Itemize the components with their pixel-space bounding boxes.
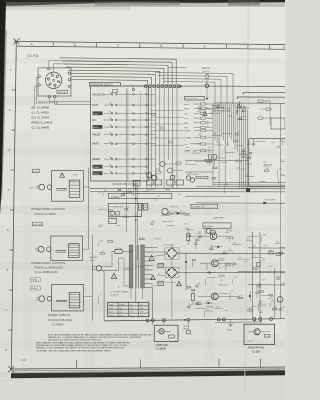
stage3 wires — [198, 295, 211, 297]
svg-text:(B): CL-54085: (B): CL-54085 — [32, 106, 50, 110]
wire cross links bus-syscon — [151, 110, 184, 112]
operation switch label box — [89, 82, 120, 86]
fuse F1 — [115, 250, 122, 254]
svg-text:SYSCON PCB CL-5448: SYSCON PCB CL-5448 — [112, 184, 137, 186]
svg-text:POWER SUPPLY & SYSCON: POWER SUPPLY & SYSCON — [32, 262, 66, 265]
bridge rectifier D2 — [166, 267, 177, 278]
AC plug symbol — [96, 266, 101, 271]
svg-text:220: 220 — [211, 112, 214, 114]
fold crease horizontal — [0, 229, 285, 232]
svg-text:C24: C24 — [268, 266, 271, 268]
svg-text:TIMER: TIMER — [93, 167, 100, 169]
cluster transistors — [186, 176, 190, 180]
svg-text:1k: 1k — [173, 176, 175, 178]
svg-text:33k: 33k — [262, 280, 265, 282]
svg-text:AC317: AC317 — [227, 329, 233, 332]
resistor R20 — [187, 233, 190, 240]
transformer T1 primary — [129, 245, 133, 288]
svg-text:47: 47 — [162, 214, 164, 216]
svg-text:R24: R24 — [248, 143, 251, 145]
svg-text:AC120V: AC120V — [90, 256, 98, 259]
svg-text:MAIN REG: MAIN REG — [214, 216, 225, 219]
wire D1 outputs — [177, 254, 286, 256]
svg-text:0.01: 0.01 — [266, 168, 270, 170]
mute block box — [108, 193, 172, 198]
wire taps to D1 — [153, 251, 167, 253]
svg-text:POWER SW: POWER SW — [111, 207, 124, 209]
svg-text:10k: 10k — [271, 301, 274, 303]
wire vertical right edge — [280, 104, 282, 319]
svg-text:D12: D12 — [235, 140, 238, 142]
svg-text:LAMP: LAMP — [184, 150, 190, 153]
svg-text:MUTE: MUTE — [93, 144, 100, 146]
svg-text:220: 220 — [226, 144, 229, 146]
wire left pins down — [37, 78, 40, 104]
svg-text:2SC945: 2SC945 — [243, 108, 250, 110]
wire harness vertical extensions — [212, 137, 214, 186]
warning triangle 1 — [60, 173, 65, 178]
svg-text:POWER SUPPLY & SYSCON: POWER SUPPLY & SYSCON — [32, 208, 66, 211]
svg-text:REG+12V: REG+12V — [219, 284, 229, 286]
svg-text:10k: 10k — [207, 161, 210, 163]
svg-text:DOWN: DOWN — [184, 137, 191, 139]
wire fuse to transformer — [122, 251, 129, 253]
svg-text:47: 47 — [158, 274, 160, 276]
svg-text:R24: R24 — [167, 213, 170, 215]
svg-text:10k: 10k — [225, 184, 228, 186]
wire rail y285 — [248, 284, 285, 286]
svg-text:4.7k: 4.7k — [134, 214, 137, 216]
svg-text:220: 220 — [277, 146, 280, 148]
svg-text:33k: 33k — [206, 107, 209, 109]
wire rail bridge1 — [178, 252, 286, 254]
svg-text:REW: REW — [93, 127, 98, 129]
svg-text:100: 100 — [239, 257, 242, 259]
node AW-101 end — [206, 98, 208, 100]
wire D2 top bottom — [171, 245, 173, 248]
resistor R22 — [192, 293, 195, 300]
block3 USA label — [31, 278, 41, 282]
svg-text:1k: 1k — [199, 133, 201, 135]
warning triangle 4 — [177, 281, 182, 286]
svg-text:100: 100 — [243, 154, 246, 156]
svg-text:(WHITE): (WHITE) — [58, 92, 66, 94]
svg-text:2SC945: 2SC945 — [218, 258, 225, 260]
wire opsw exits down — [126, 181, 128, 232]
wire bottom bus — [104, 319, 285, 321]
svg-text:0.01: 0.01 — [216, 307, 220, 309]
power detect box — [191, 204, 218, 208]
frame row ticks — [12, 89, 16, 91]
svg-text:4.7k: 4.7k — [193, 151, 196, 153]
svg-text:0.01: 0.01 — [277, 276, 281, 278]
monitor connector pins — [53, 79, 55, 81]
wire vertical harness bundle — [212, 104, 214, 137]
svg-text:C4: C4 — [259, 114, 261, 116]
svg-text:120V: 120V — [109, 308, 114, 310]
svg-text:0.01: 0.01 — [262, 234, 266, 236]
svg-text:CL-58095: CL-58095 — [156, 348, 167, 351]
svg-text:R24: R24 — [282, 282, 285, 284]
transistor Q6 stage1 — [210, 233, 217, 240]
block3 CAN label — [31, 286, 41, 290]
wire cluster top up — [49, 61, 130, 68]
svg-text:100: 100 — [233, 262, 236, 264]
harness labels block — [213, 104, 236, 112]
wire bridge outputs vertical — [185, 253, 187, 290]
svg-text:SOL: SOL — [184, 118, 189, 120]
svg-text:PCB-U1 CL-5463A: PCB-U1 CL-5463A — [35, 213, 56, 216]
wire lamp drop — [152, 320, 154, 325]
svg-text:MARKED. ALL VOLTAGES MEASURED: MARKED. ALL VOLTAGES MEASURED TO CHASSIS… — [48, 336, 142, 339]
wire vertical bus right of opsw — [146, 87, 148, 189]
wire ac vertical left — [103, 272, 105, 321]
svg-text:RESET: RESET — [93, 159, 101, 161]
lamp wires — [157, 330, 159, 332]
warning triangle 3 — [111, 273, 116, 278]
capacitor C12 — [253, 139, 255, 144]
syscon connector strip box — [185, 96, 205, 100]
paper left of band — [0, 372, 11, 378]
white label — [57, 90, 68, 93]
wire vertical V1 — [252, 232, 254, 319]
svg-text:D12: D12 — [124, 216, 127, 218]
zener D9 — [249, 295, 252, 298]
svg-text:F: F — [247, 45, 249, 49]
svg-text:2SC945: 2SC945 — [125, 268, 132, 270]
transistor Q9 — [277, 297, 283, 303]
svg-text:R24: R24 — [188, 233, 191, 235]
transistor Q3 — [162, 208, 168, 214]
resistor R31 — [276, 253, 281, 255]
fold crease shade — [246, 0, 250, 396]
wire opsw internal verticals — [126, 89, 128, 182]
voltage table — [108, 302, 149, 316]
svg-text:SW: SW — [109, 221, 112, 223]
svg-text:4.7k: 4.7k — [242, 151, 245, 153]
wire y196 link — [185, 195, 240, 197]
junction dots center vertical — [135, 188, 137, 190]
warning triangle 5 — [203, 111, 207, 115]
svg-text:(RED):CL-54065: (RED):CL-54065 — [32, 121, 53, 125]
svg-text:(G): CL-54045: (G): CL-54045 — [32, 116, 50, 120]
svg-text:R24: R24 — [130, 249, 133, 251]
svg-text:D12: D12 — [186, 213, 189, 215]
svg-text:33k: 33k — [259, 301, 262, 303]
frame bottom second line — [11, 369, 285, 371]
svg-text:10k: 10k — [236, 160, 239, 162]
svg-text:0.01: 0.01 — [216, 156, 220, 158]
svg-text:C12: C12 — [276, 241, 279, 243]
monitor connector outer pins bottom — [48, 95, 50, 97]
svg-text:100: 100 — [270, 296, 273, 298]
svg-text:2SC945: 2SC945 — [225, 264, 232, 266]
warning triangle 6 — [237, 104, 241, 108]
frame corner mark top-left — [14, 39, 20, 45]
bottom bus junction circles — [146, 319, 149, 322]
stage2 wires — [200, 262, 211, 264]
frame corner mark bottom-left — [8, 366, 14, 372]
choke L1 — [158, 263, 163, 267]
svg-text:100: 100 — [189, 304, 192, 306]
wire vertical V2 — [259, 232, 261, 319]
wire opsw to vertical bus links — [147, 93, 155, 95]
svg-text:1-10: 1-10 — [21, 359, 26, 362]
scan streak columns — [22, 130, 32, 375]
wire rail E3 — [215, 102, 285, 104]
reg box — [203, 223, 231, 228]
paper bright right — [252, 44, 285, 334]
svg-text:STOP: STOP — [93, 113, 99, 115]
AW-101 junction — [205, 84, 208, 87]
svg-text:D12: D12 — [128, 189, 131, 191]
monitor connector outer pins left — [38, 75, 40, 77]
svg-text:47: 47 — [224, 250, 226, 252]
svg-text:220: 220 — [198, 232, 201, 234]
svg-text:2SC945: 2SC945 — [219, 275, 226, 277]
svg-text:(L): CL-54055: (L): CL-54055 — [32, 111, 50, 115]
wire short right links — [66, 101, 91, 103]
svg-text:PLACING ANY OF THESE PARTS REA: PLACING ANY OF THESE PARTS READ CAREFULL… — [36, 344, 128, 347]
block2 label — [32, 222, 42, 226]
connector pin row circles — [144, 85, 147, 88]
svg-text:100: 100 — [198, 237, 201, 239]
svg-text:0.01: 0.01 — [126, 207, 130, 209]
svg-text:OR REPAIR. USE ONLY MANUFACTUR: OR REPAIR. USE ONLY MANUFACTURER SPECIFI… — [36, 349, 111, 352]
wiring detail region right-mid — [215, 144, 223, 146]
frame header bottom line — [17, 46, 285, 49]
svg-text:(LED): (LED) — [33, 171, 39, 173]
svg-text:220: 220 — [262, 259, 265, 261]
monitor connector circle — [45, 72, 61, 88]
scan top smudge right — [228, 0, 260, 6]
wire block2 right — [83, 248, 89, 250]
svg-text:0.01: 0.01 — [100, 240, 104, 242]
wire rail E2 — [237, 97, 285, 99]
svg-text:UP: UP — [184, 144, 188, 146]
svg-text:V-2: V-2 — [140, 304, 143, 306]
wire adpt drop — [187, 320, 189, 331]
svg-text:D-1 S4VB10: D-1 S4VB10 — [164, 245, 176, 247]
svg-text:AN7805: AN7805 — [205, 225, 214, 228]
wire harness feed 1 — [155, 73, 233, 105]
wire bottom pins — [49, 98, 66, 102]
svg-text:PLAY: PLAY — [93, 104, 99, 107]
svg-text:REC/MUTE: REC/MUTE — [93, 94, 105, 96]
svg-text:0.01: 0.01 — [212, 104, 216, 106]
wire y172 link — [185, 171, 213, 173]
power block 2 — [38, 246, 44, 252]
svg-text:4.7k: 4.7k — [278, 168, 281, 170]
wiring detail region center — [184, 223, 187, 225]
bridge rectifier D1 — [166, 248, 177, 259]
svg-text:S-601: S-601 — [73, 174, 78, 176]
wire bundle monitor to syscon — [60, 58, 176, 85]
warning triangle 2 — [149, 255, 154, 260]
svg-text:C12: C12 — [239, 295, 242, 297]
scan left strip fade — [1, 30, 7, 200]
svg-text:PCB-U2 CL-5464A (USA): PCB-U2 CL-5464A (USA) — [35, 267, 64, 270]
svg-text:240V: 240V — [109, 315, 114, 317]
svg-text:1k: 1k — [281, 160, 283, 162]
svg-text:MTR: MTR — [184, 109, 189, 111]
svg-text:CL-54105: CL-54105 — [110, 294, 120, 296]
svg-text:47: 47 — [100, 294, 102, 296]
svg-text:FUSE: FUSE — [119, 304, 125, 306]
svg-text:100: 100 — [237, 132, 240, 134]
diode D6 — [217, 246, 221, 249]
svg-text:C12: C12 — [234, 277, 237, 279]
svg-text:(C) CL-5465B (CAN): (C) CL-5465B (CAN) — [35, 271, 58, 274]
svg-text:33k: 33k — [189, 172, 192, 174]
capacitor C22 — [255, 291, 259, 293]
svg-text:33k: 33k — [249, 308, 252, 310]
scan top smudge center — [95, 1, 180, 6]
svg-text:(CAN): (CAN) — [32, 287, 38, 290]
junction blob — [246, 188, 250, 192]
node junction dot — [180, 85, 182, 87]
svg-text:T-1 POWER TRANS: T-1 POWER TRANS — [110, 291, 130, 294]
svg-text:R40: R40 — [244, 261, 247, 263]
svg-text:1k: 1k — [260, 310, 262, 312]
svg-text:NO POWER: NO POWER — [265, 199, 276, 201]
svg-text:D12: D12 — [273, 306, 276, 308]
wire sensor drops — [253, 319, 255, 324]
wire stub above circles — [168, 67, 186, 69]
phototransistor Q10 — [254, 329, 260, 335]
wire bus second — [215, 321, 262, 324]
wire cluster top2 — [54, 64, 134, 72]
opsw top resistor — [112, 90, 117, 93]
paper bright top strip — [6, 6, 285, 84]
ground symbol — [230, 320, 232, 325]
wire rail bridge2 — [178, 272, 286, 274]
monitor connector outer pin top — [48, 67, 50, 69]
diode D8 — [208, 302, 212, 305]
scan streak bands — [0, 58, 285, 64]
page bottom edge shadow band — [11, 370, 285, 378]
svg-text:10k: 10k — [264, 102, 267, 104]
svg-text:1k: 1k — [180, 211, 182, 213]
svg-text:2SC945: 2SC945 — [167, 186, 174, 188]
wire verticals left of motor box — [238, 101, 240, 190]
svg-text:P.B REC SOL MTR: P.B REC SOL MTR — [213, 111, 231, 113]
svg-text:SY-CON P.B: SY-CON P.B — [185, 98, 197, 100]
relay coils — [138, 203, 142, 210]
svg-text:F-1 2A: F-1 2A — [115, 247, 121, 250]
reel motor box — [249, 138, 285, 140]
node bridge output junction — [185, 261, 187, 263]
transistor Q7 stage2 — [211, 260, 218, 267]
stage1 wires — [200, 235, 210, 237]
svg-text:10k: 10k — [152, 221, 155, 223]
frame bottom column ticks — [76, 360, 78, 369]
svg-text:47: 47 — [186, 162, 188, 164]
svg-text:10k: 10k — [269, 250, 272, 252]
wire horizontal main y85 — [123, 85, 285, 88]
svg-text:R24: R24 — [157, 196, 160, 198]
svg-text:R-1 1k: R-1 1k — [248, 341, 254, 343]
monitor connector outer pins right — [68, 72, 70, 74]
svg-text:C12: C12 — [206, 309, 209, 311]
svg-text:220: 220 — [213, 134, 216, 136]
svg-text:100: 100 — [197, 283, 200, 285]
svg-text:P.B: P.B — [184, 128, 188, 130]
block1 LED label — [32, 169, 39, 173]
transistor Q12 cluster — [160, 161, 165, 166]
svg-text:C12: C12 — [145, 268, 148, 270]
resistor R50 cluster — [258, 100, 263, 102]
svg-text:CS-P11: CS-P11 — [27, 54, 39, 58]
wire center vertical — [135, 181, 137, 302]
wire rail E1 — [243, 92, 285, 94]
svg-text:4.7k: 4.7k — [253, 306, 257, 308]
wire motor feed — [185, 160, 249, 162]
svg-text:MEMO: MEMO — [93, 173, 100, 175]
svg-text:INDICATED. ALL SWITCHES SHOWN: INDICATED. ALL SWITCHES SHOWN IN OFF POS… — [48, 338, 102, 341]
svg-text:60Hz: 60Hz — [90, 260, 95, 262]
node bus dot — [184, 319, 186, 321]
wire harness feed 4 — [164, 82, 215, 105]
capacitor C10 pair — [208, 155, 211, 160]
monitor PCB box — [38, 68, 71, 96]
svg-text:2SC945: 2SC945 — [226, 231, 233, 233]
svg-text:NOTE: ALL RESISTANCE VALUES IN: NOTE: ALL RESISTANCE VALUES IN OHMS. K=1… — [48, 333, 152, 336]
transformer T1 core — [135, 245, 137, 288]
svg-text:2SC945: 2SC945 — [240, 116, 247, 118]
wire harness feed 2 — [158, 76, 227, 105]
wire harness feed 3 — [161, 79, 221, 105]
wire line y203 with diode D5 — [196, 202, 285, 204]
wire transformer bottom drops — [130, 288, 132, 299]
wire bus extra lines — [213, 182, 285, 184]
svg-text:R24: R24 — [280, 251, 283, 253]
svg-text:AC: AC — [30, 186, 33, 189]
svg-text:SYSCON PCB (USA): SYSCON PCB (USA) — [48, 319, 72, 322]
wiring detail region reg1 — [218, 276, 226, 278]
resistor R32 — [256, 263, 260, 267]
svg-text:0.01: 0.01 — [110, 215, 114, 217]
svg-text:B R G Y W B R G Y: B R G Y W B R G Y — [213, 108, 231, 110]
svg-text:MTR: MTR — [184, 104, 189, 106]
svg-text:PAUSE: PAUSE — [93, 134, 101, 137]
wire q3 right with diode — [168, 212, 190, 214]
wire rail y248 — [248, 247, 285, 249]
svg-text:47: 47 — [247, 239, 249, 241]
wire block3 right — [83, 296, 92, 298]
transistor Q2 — [170, 175, 175, 180]
component row boxes — [133, 180, 140, 186]
wire double bus — [90, 187, 285, 189]
scan top edge band — [0, 0, 285, 6]
frame top outer line — [14, 41, 285, 44]
svg-text:V-1: V-1 — [130, 304, 133, 306]
transistor Q8 stage3 — [211, 293, 218, 300]
power block 1 (lamp) — [39, 184, 45, 190]
AW-101 fuse symbol — [206, 74, 208, 78]
transistor Q4 Q5 — [206, 229, 211, 234]
svg-text:100: 100 — [252, 256, 255, 258]
svg-text:1k: 1k — [119, 187, 121, 189]
svg-text:POWER DET: POWER DET — [192, 206, 205, 208]
svg-text:4.7k: 4.7k — [248, 155, 251, 157]
zener D7 — [209, 271, 213, 274]
svg-text:(C): CL-54045: (C): CL-54045 — [32, 126, 50, 130]
svg-text:LINE: LINE — [109, 304, 114, 306]
svg-text:D12: D12 — [111, 195, 114, 197]
svg-text:0.01: 0.01 — [209, 118, 213, 120]
svg-text:D12: D12 — [258, 284, 261, 286]
